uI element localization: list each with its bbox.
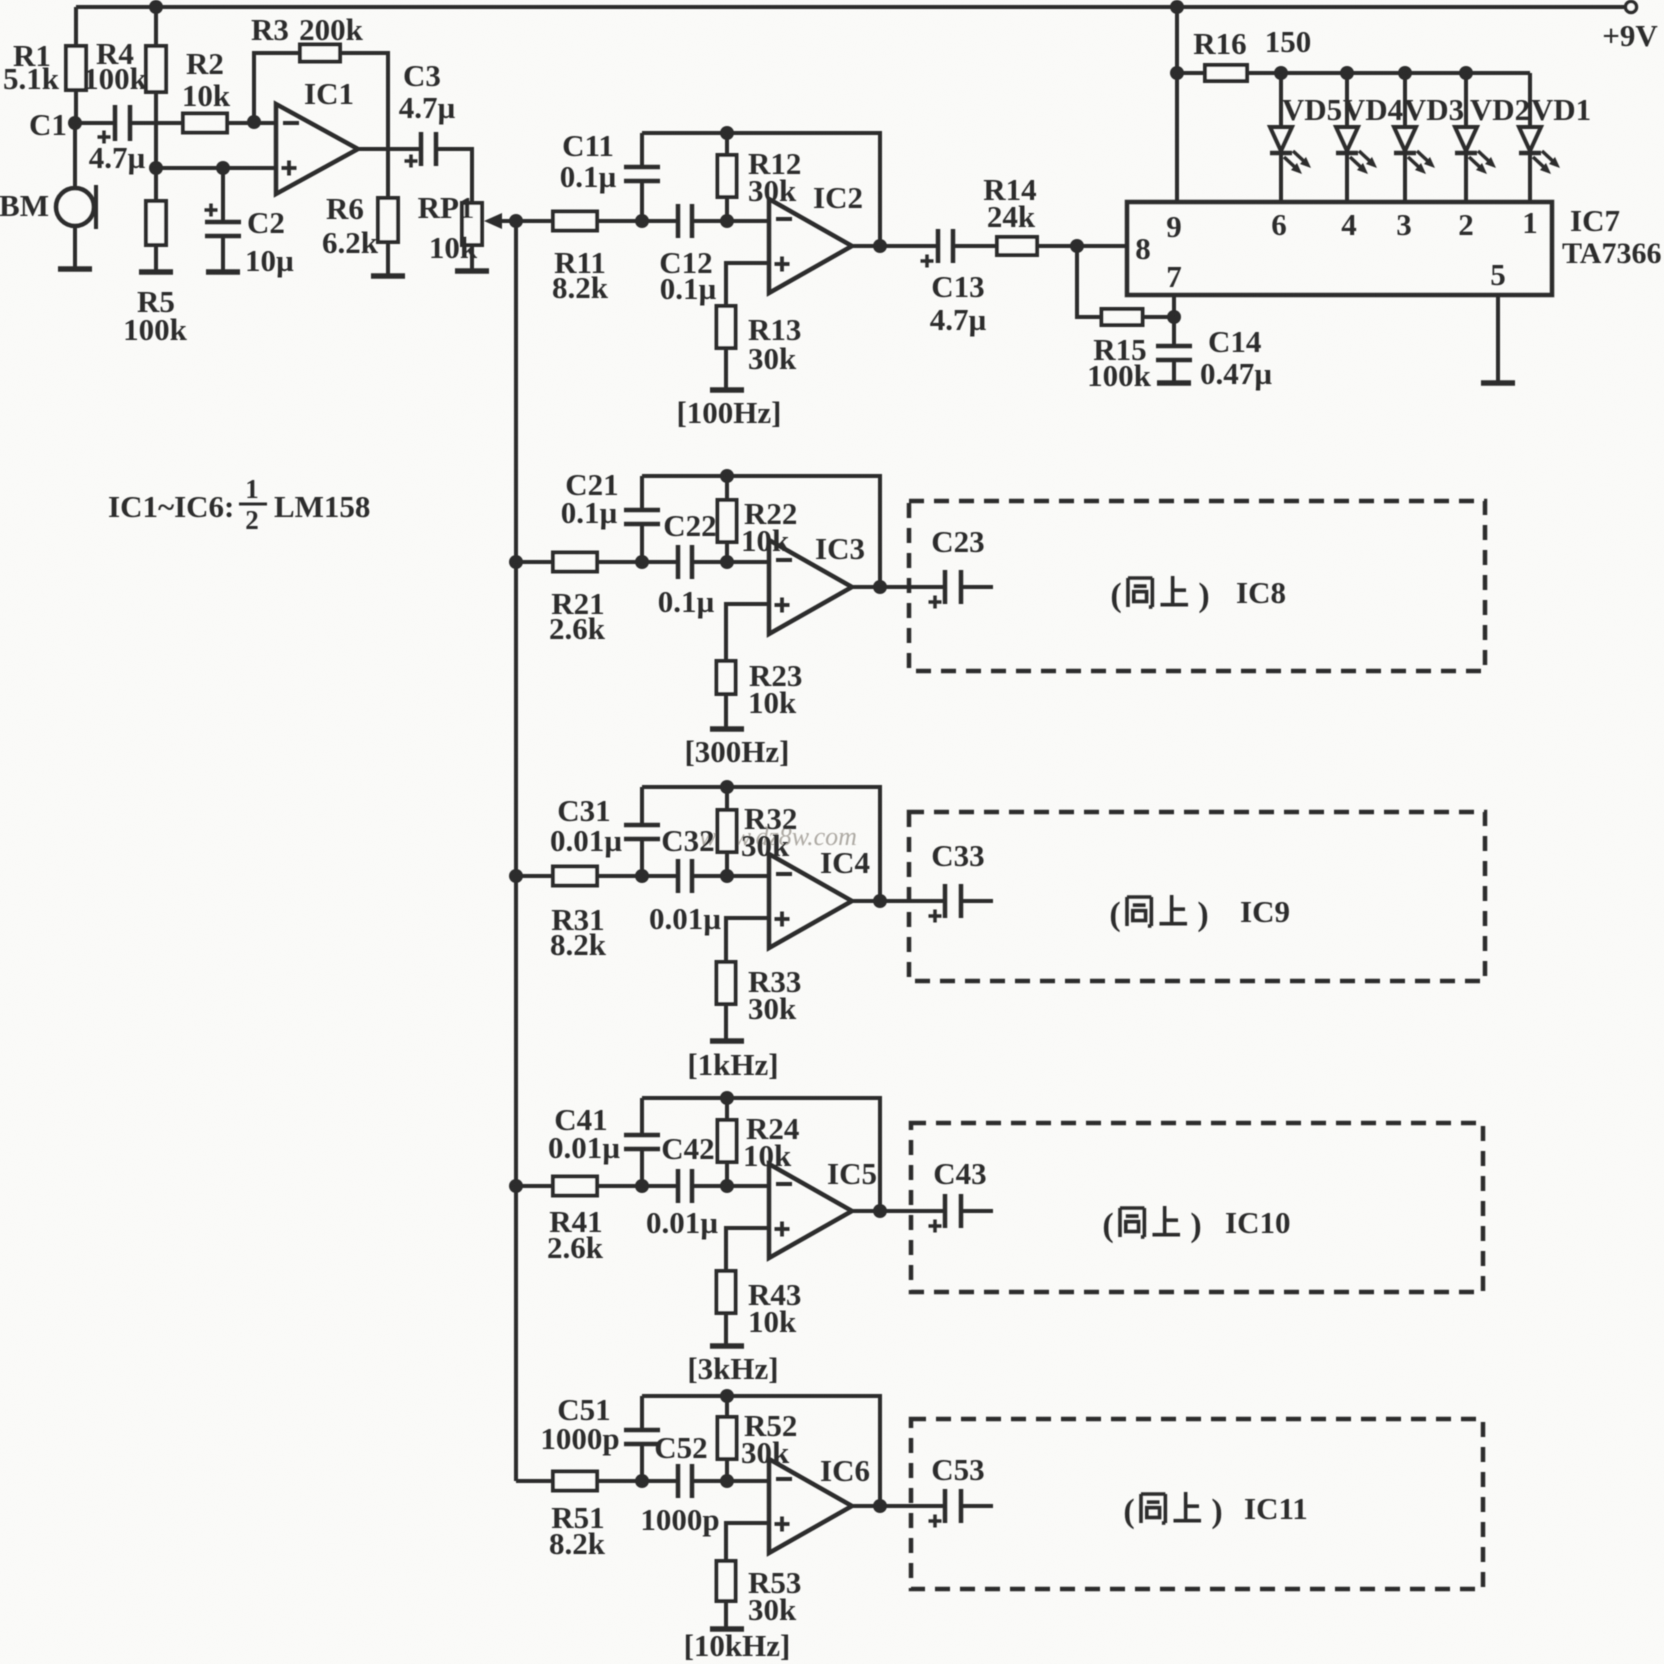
resistor R22 [718, 476, 798, 562]
node output junction IC4 [852, 894, 887, 908]
node inverting junction IC3 [720, 555, 734, 569]
wire C42 to op-amp [692, 1184, 769, 1188]
capacitor C11 [560, 128, 660, 221]
pin 6 label [1271, 207, 1287, 242]
ground (R23) [710, 726, 744, 732]
wire C3 to RP1 [436, 149, 472, 203]
label IC1~IC6 1/2 LM158 [108, 474, 370, 535]
resistor R41 [547, 1177, 604, 1266]
ground (R33) [710, 1038, 744, 1044]
capacitor C33 [880, 838, 993, 923]
capacitor C1 [29, 105, 145, 175]
capacitor C41 [548, 1098, 660, 1186]
wire IC1 output [358, 147, 421, 151]
node output junction IC3 [852, 580, 887, 594]
node anode rail junction VD5 [1274, 66, 1288, 80]
wire feedback top IC5 [642, 1098, 880, 1211]
resistor R16 [1177, 24, 1311, 81]
node inverting junction IC6 [720, 1474, 734, 1488]
node R4 top junction [149, 0, 163, 14]
wire mic bottom [73, 226, 77, 268]
wire bus to R31 [516, 874, 554, 878]
RP1 wiper arrow [484, 213, 516, 229]
wire feedback top IC2 [642, 133, 880, 246]
wire R5 bottom [154, 245, 158, 271]
dashed box IC11 [911, 1419, 1483, 1589]
resistor R14 [983, 172, 1037, 255]
resistor R24 [718, 1098, 800, 1186]
wire feedback top IC4 [642, 787, 880, 901]
wire signal bus [514, 221, 518, 1481]
node pin7 junction [1167, 310, 1181, 324]
label frequency [3kHz] [687, 1351, 778, 1386]
wire C32 to op-amp [692, 874, 769, 878]
op-amp IC5 [769, 1156, 877, 1258]
wire feedback top IC6 [642, 1396, 880, 1506]
label frequency [300Hz] [684, 734, 789, 769]
resistor R52 [718, 1396, 798, 1481]
wire bus to R21 [516, 560, 554, 564]
node pin8 junction [1070, 239, 1084, 253]
node R52 top junction [720, 1389, 734, 1403]
node C31 junction [635, 869, 649, 883]
wire R31 to input node [596, 874, 678, 878]
label (tong shang) IC11 [1123, 1491, 1307, 1530]
node IC7 supply junction [1170, 0, 1184, 14]
dashed box IC9 [909, 812, 1485, 981]
wire node to C1 [75, 121, 115, 125]
wire R3 feedback left leg [254, 53, 300, 122]
LED VD5 [1270, 73, 1342, 202]
wire bus to R11 [516, 219, 554, 223]
pin 9 label [1166, 209, 1182, 244]
node inverting junction IC2 [720, 214, 734, 228]
wire LED anode rail [1281, 71, 1530, 75]
capacitor C53 [880, 1452, 993, 1528]
node bus junction IC5 stage [509, 1179, 523, 1193]
ground (R13) [710, 387, 744, 393]
resistor R13 [717, 306, 802, 388]
wire pin8 node down to R15 [1077, 246, 1102, 317]
node output junction IC2 [852, 239, 887, 253]
wire R15 to pin7 node [1143, 315, 1174, 319]
node inverting junction IC4 [720, 869, 734, 883]
wire +9V top rail [76, 5, 1624, 9]
wire non-inverting input IC3 [726, 604, 769, 661]
IC chip IC7 TA7366 [1127, 202, 1661, 295]
wire R1 to mic node [74, 90, 78, 123]
resistor R1 [3, 38, 86, 96]
resistor R3 [251, 12, 364, 62]
wire C1 to R2 [130, 121, 183, 125]
ground (C14) [1157, 380, 1191, 386]
resistor R11 [552, 212, 609, 306]
node anode rail junction VD3 [1398, 66, 1412, 80]
potentiometer RP1 [418, 190, 482, 265]
resistor R5 [123, 201, 188, 347]
wire R21 to input node [596, 560, 678, 564]
node output junction IC6 [852, 1499, 887, 1513]
op-amp IC3 [769, 531, 865, 634]
capacitor C51 [540, 1392, 660, 1481]
node R16 junction [1170, 66, 1184, 80]
label frequency [100Hz] [676, 395, 781, 430]
ground (R5) [139, 269, 173, 275]
wire R11 to input node [596, 219, 678, 223]
wire non-inverting input IC4 [726, 918, 769, 962]
node anode rail junction VD2 [1459, 66, 1473, 80]
node anode rail junction VD4 [1340, 66, 1354, 80]
terminal +9V [1602, 2, 1658, 54]
pin 1 label [1522, 205, 1538, 240]
watermark [699, 822, 857, 851]
wire IC2 output to C13 [880, 244, 938, 248]
wire R1 top [74, 7, 78, 46]
capacitor C2 [205, 168, 295, 278]
wire R3 feedback right leg [340, 53, 388, 149]
resistor R51 [549, 1472, 606, 1562]
capacitor C43 [880, 1156, 993, 1233]
pin 2 label [1458, 207, 1474, 242]
resistor R33 [717, 962, 802, 1039]
label (tong shang) IC10 [1102, 1205, 1290, 1244]
pin 3 label [1396, 207, 1412, 242]
wire R16 node to IC7 pin 9 [1175, 73, 1179, 202]
pin 8 label [1135, 231, 1151, 266]
capacitor C14 [1156, 317, 1272, 391]
node C41 junction [635, 1179, 649, 1193]
resistor R31 [550, 867, 607, 963]
wire non-inverting input IC2 [726, 263, 769, 306]
capacitor C52 [640, 1430, 719, 1537]
resistor R4 [83, 36, 166, 96]
wire R14 to pin8 node [1037, 244, 1077, 248]
resistor R6 [322, 149, 398, 274]
wire C52 to op-amp [692, 1479, 769, 1483]
LED VD2 [1455, 73, 1530, 202]
node IC1 inverting junction [247, 115, 261, 129]
resistor R32 [718, 787, 798, 876]
wire R5 top [154, 168, 158, 201]
capacitor C42 [646, 1131, 718, 1240]
label frequency [10kHz] [684, 1628, 791, 1663]
ground (C2) [206, 269, 240, 275]
node bus junction IC4 stage [509, 869, 523, 883]
wire R2 to inverting node [227, 121, 276, 125]
LED VD3 [1394, 73, 1464, 202]
resistor R2 [182, 46, 231, 133]
node bus junction IC3 stage [509, 555, 523, 569]
wire RP1 bottom [470, 245, 474, 269]
op-amp IC2 [769, 180, 863, 293]
node R4/R5 bias junction [149, 161, 163, 175]
node C11 junction [635, 214, 649, 228]
LED VD4 [1336, 73, 1403, 202]
ground (R6) [371, 273, 405, 279]
node C21 junction [635, 555, 649, 569]
resistor R21 [549, 553, 606, 647]
dashed box IC10 [911, 1123, 1483, 1292]
capacitor C21 [561, 467, 660, 562]
capacitor C23 [880, 524, 993, 609]
node R12 top junction [720, 126, 734, 140]
node R22 top junction [720, 469, 734, 483]
resistor R12 [718, 133, 802, 221]
op-amp IC4 [769, 845, 870, 948]
wire C22 to op-amp [692, 560, 769, 564]
wire IC7 pin 5 [1496, 295, 1500, 381]
wire C12 to op-amp [692, 219, 769, 223]
wire bus to R41 [516, 1184, 554, 1188]
pin 7 label [1166, 259, 1182, 294]
wire IC1 non-inverting input [156, 166, 276, 170]
label (tong shang) IC8 [1110, 575, 1286, 614]
node C1/R1/BM junction [68, 116, 82, 130]
ground (pin 5) [1481, 380, 1515, 386]
node R32 top junction [720, 780, 734, 794]
wire R51 to input node [596, 1479, 678, 1483]
wire bus to R51 [516, 1479, 554, 1483]
wire to IC7 pin 8 [1077, 244, 1127, 248]
resistor R43 [717, 1271, 802, 1344]
wire R4 top [154, 7, 158, 46]
resistor R23 [717, 658, 803, 727]
node output junction IC5 [852, 1204, 887, 1218]
wire R41 to input node [596, 1184, 678, 1188]
pin 4 label [1341, 207, 1357, 242]
wire supply to R16 node [1175, 7, 1179, 73]
dashed box IC8 [909, 501, 1485, 671]
wire IC7 pin 7 [1172, 295, 1176, 317]
ground (R43) [710, 1343, 744, 1349]
wire feedback top IC3 [642, 476, 880, 587]
ground (RP1) [455, 268, 489, 274]
wire mic top [73, 123, 77, 189]
resistor R53 [717, 1561, 802, 1627]
LED VD1 [1519, 73, 1591, 202]
node R24 top junction [720, 1091, 734, 1105]
node wiper bus junction [509, 214, 523, 228]
op-amp IC6 [769, 1453, 870, 1553]
node C2 junction [216, 161, 230, 175]
ground (R53) [710, 1626, 744, 1632]
wire C13 to R14 [953, 244, 997, 248]
resistor R15 [1087, 309, 1152, 393]
label (tong shang) IC9 [1109, 894, 1290, 933]
capacitor C12 [659, 204, 716, 306]
wire non-inverting input IC6 [726, 1523, 769, 1561]
capacitor C32 [649, 823, 721, 936]
capacitor C3 [399, 58, 456, 168]
wire non-inverting input IC5 [726, 1228, 769, 1271]
wire R4 to node [154, 92, 158, 168]
pin 5 label [1490, 257, 1506, 292]
label frequency [1kHz] [687, 1047, 778, 1082]
capacitor C22 [658, 508, 717, 619]
node inverting junction IC5 [720, 1179, 734, 1193]
capacitor C13 [921, 229, 987, 337]
capacitor C31 [550, 787, 660, 876]
microphone BM [0, 185, 96, 229]
ground (BM) [58, 266, 92, 272]
op-amp IC1 [276, 76, 358, 194]
node C51 junction [635, 1474, 649, 1488]
